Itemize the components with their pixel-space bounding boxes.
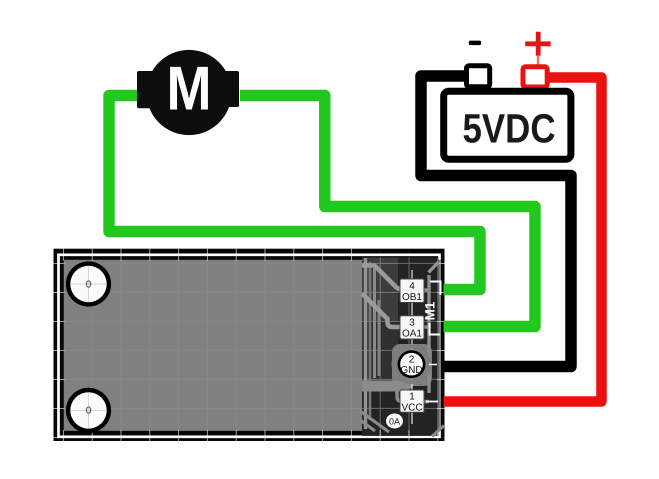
GND copper surround <box>392 344 432 386</box>
silkscreen 0A badge <box>386 414 403 429</box>
svg-text:0: 0 <box>86 406 92 417</box>
trace T1b second vertical <box>369 262 372 420</box>
motor M1 right tab <box>222 71 239 107</box>
PCB grid lines over routing area <box>362 249 445 441</box>
battery positive tab <box>523 67 547 87</box>
svg-text:1: 1 <box>409 391 415 402</box>
silkscreen tick GND <box>429 364 437 366</box>
mounting hole top <box>66 261 111 306</box>
trace T2b vertical <box>378 300 381 376</box>
battery positive tab stub <box>537 56 539 66</box>
wire green A: motor left to pin 4 OB1 <box>109 96 480 290</box>
silkscreen bracket near pin 3 <box>430 323 441 335</box>
trace T4 to OB1 <box>362 266 401 290</box>
svg-text:M: M <box>167 55 212 124</box>
svg-text:0A: 0A <box>389 417 400 427</box>
motor M1 left tab <box>137 71 159 108</box>
PCB silkscreen outline (white inset line) <box>59 255 440 437</box>
svg-text:OB1: OB1 <box>402 292 422 303</box>
trace T5 right of pins <box>424 275 429 402</box>
pin 2 GND <box>394 347 429 382</box>
trace T3 to OA1 <box>362 294 401 328</box>
PCB grid ticks on border <box>54 249 445 441</box>
battery negative tab <box>467 66 490 87</box>
wire red: battery plus to pin 1 VCC <box>444 78 602 402</box>
svg-text:5VDC: 5VDC <box>463 106 556 152</box>
pin 4 OB1 <box>400 279 424 303</box>
battery body 5VDC <box>444 91 571 159</box>
svg-text:0: 0 <box>86 279 92 290</box>
PCB routing area lighter patch top-left <box>362 258 398 321</box>
svg-text:VCC: VCC <box>401 403 422 414</box>
minus symbol <box>469 41 481 46</box>
PCB routing area lighter patch mid-left <box>362 321 398 388</box>
svg-text:GND: GND <box>400 365 422 376</box>
plus symbol <box>525 32 551 56</box>
pin crosshair dashes <box>411 270 413 424</box>
trace T2 mid vertical <box>373 268 376 378</box>
trace T7 GND to pour <box>362 377 411 386</box>
motor M1 body <box>146 50 231 135</box>
silkscreen bracket near pin 4 <box>430 282 441 296</box>
svg-text:4: 4 <box>409 281 415 292</box>
svg-text:2: 2 <box>409 355 415 366</box>
trace T6 corner diagonal <box>429 262 439 273</box>
wire black: battery minus to pin 2 GND <box>421 76 571 367</box>
svg-text:M1: M1 <box>423 301 438 320</box>
wire green B: motor right to pin 3 OA1 <box>240 96 535 327</box>
mounting hole bottom <box>66 388 111 433</box>
PCB grid lines faint <box>54 249 445 441</box>
PCB copper pour <box>64 260 441 431</box>
pin 3 OA1 <box>400 316 424 340</box>
trace T8 bottom diagonals <box>360 411 444 437</box>
trace T9 to VCC <box>397 386 402 401</box>
PCB board U1 outer <box>54 249 445 441</box>
svg-text:3: 3 <box>409 317 415 328</box>
silkscreen tick VCC <box>426 401 438 403</box>
PCB pin routing area (dark) <box>362 258 439 436</box>
pin 1 VCC <box>400 390 424 414</box>
trace T1 left vertical <box>364 258 367 429</box>
svg-text:OA1: OA1 <box>402 329 422 340</box>
